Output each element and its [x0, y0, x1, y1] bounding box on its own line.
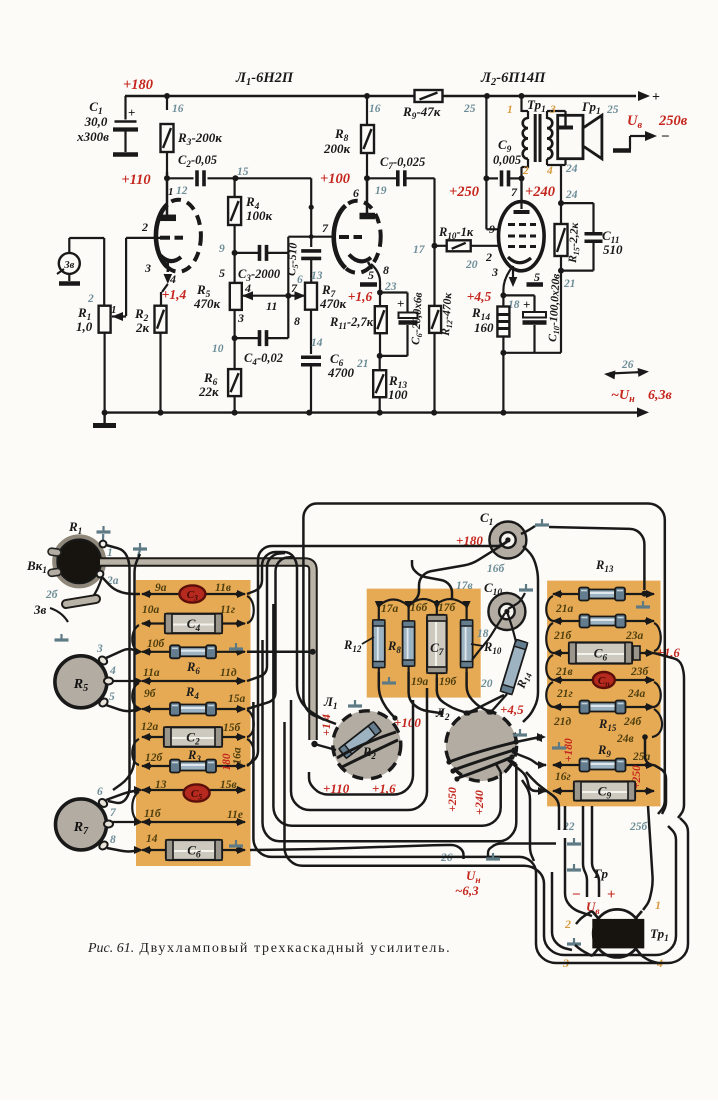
- wire 15а up right: [247, 557, 293, 709]
- svg-text:25: 25: [606, 104, 619, 116]
- wire row 9а-11в: [142, 593, 245, 595]
- panel right terminal strip: [547, 581, 660, 807]
- svg-text:11в: 11в: [215, 582, 231, 594]
- wire R7 lug8: [107, 848, 140, 851]
- wire row 11б-11е: [142, 821, 245, 823]
- capacitor C7: [367, 177, 397, 179]
- capacitor C9 body: [574, 782, 635, 801]
- capacitor C10 can: [488, 593, 525, 630]
- svg-text:4: 4: [169, 272, 176, 286]
- svg-text:4: 4: [109, 665, 116, 677]
- capacitor C2 body: [164, 727, 222, 747]
- wire C5 branch: [310, 178, 312, 247]
- svg-text:3: 3: [491, 265, 498, 279]
- potentiometer R7: [56, 799, 107, 850]
- svg-text:470к: 470к: [319, 296, 347, 311]
- corridor U5 to transformer: [253, 702, 688, 963]
- svg-text:+1,6: +1,6: [348, 289, 373, 304]
- resistor R8: [366, 96, 368, 124]
- wire 11д to braid: [247, 553, 285, 681]
- resistor R15 body: [589, 703, 617, 712]
- triode U1b Л1 second half: [334, 201, 381, 273]
- wire mid strip verticals: [378, 604, 380, 672]
- capacitor C7 body: [427, 615, 447, 673]
- svg-text:21: 21: [356, 358, 369, 370]
- svg-text:6,3в: 6,3в: [648, 388, 673, 403]
- capacitor C6 electrolytic body: [569, 643, 632, 664]
- corridor U3: [273, 604, 500, 826]
- ground on left strip bottom: [235, 840, 237, 846]
- resistor R9 body: [589, 761, 617, 770]
- wire row C6: [142, 849, 245, 851]
- left strip edge hooks: [247, 596, 254, 623]
- capacitor C6 body: [166, 840, 222, 860]
- wire knob terminal 2a loop: [102, 577, 140, 594]
- svg-text:100: 100: [388, 387, 408, 402]
- R7 lugs: [97, 797, 108, 808]
- svg-text:18: 18: [477, 628, 489, 640]
- wire row R3: [142, 765, 245, 767]
- wire grid2 feed vertical: [287, 237, 289, 338]
- resistor R3 body: [179, 762, 207, 771]
- wire Л2 to R9 row: [512, 752, 546, 765]
- svg-text:20: 20: [465, 259, 478, 271]
- wire Л2 heater vertical a: [522, 780, 534, 861]
- wire inner transformer loop left: [552, 872, 572, 950]
- cable stub 2б: [66, 599, 96, 604]
- socket Л2 rim dots: [446, 759, 451, 764]
- node 15: [232, 175, 238, 181]
- wire transformer pin3 ground: [575, 945, 592, 956]
- wire right strip bottom Гр pair: [583, 806, 587, 897]
- wire row C2: [142, 736, 245, 738]
- resistor R10 body: [461, 620, 473, 668]
- svg-text:+: +: [652, 90, 660, 105]
- wire row R13: [553, 593, 654, 595]
- svg-text:х300в: х300в: [76, 129, 109, 144]
- right strip left edge hooks 21: [546, 596, 553, 621]
- svg-text:510: 510: [603, 242, 623, 257]
- capacitor C3 paper: [179, 585, 205, 602]
- svg-text:2б: 2б: [45, 589, 59, 601]
- svg-text:+4,5: +4,5: [467, 289, 492, 304]
- capacitor C1 can: [489, 522, 526, 559]
- svg-text:24: 24: [565, 189, 578, 201]
- svg-text:15: 15: [237, 166, 249, 178]
- capacitor C10 electrolytic: [503, 294, 534, 296]
- tube socket Л1: [333, 711, 401, 779]
- wire row C6el: [553, 652, 654, 654]
- ground pin5 triode2: [360, 282, 377, 286]
- svg-text:2к: 2к: [135, 320, 150, 335]
- wire heater ground end: [488, 844, 556, 857]
- svg-text:9а: 9а: [155, 582, 167, 594]
- wire 11в-17в long top link: [247, 552, 324, 720]
- svg-text:19: 19: [375, 185, 387, 197]
- svg-text:3в: 3в: [63, 260, 74, 271]
- svg-text:24в: 24в: [616, 733, 634, 745]
- svg-text:14: 14: [146, 833, 158, 845]
- triode U1a Л1 first half: [156, 200, 201, 272]
- svg-text:+180: +180: [563, 738, 575, 762]
- svg-text:Л2 -6П14П: Л2 -6П14П: [480, 70, 546, 88]
- ground main: [102, 410, 108, 416]
- wire transformer pin2: [576, 911, 592, 924]
- wire C10 to 18: [472, 613, 505, 660]
- wire harness top run: [303, 504, 664, 815]
- ground near C10: [525, 584, 527, 590]
- svg-text:15в: 15в: [220, 779, 237, 791]
- ground near Л1: [354, 700, 356, 706]
- svg-text:19а: 19а: [411, 676, 429, 688]
- mid strip top hooks: [379, 600, 409, 607]
- ground on left strip row3: [235, 643, 237, 649]
- svg-text:3в: 3в: [33, 602, 47, 617]
- resistor R11: [375, 306, 387, 333]
- node R13 top: [377, 353, 383, 359]
- wire bottom common rail: [105, 411, 637, 413]
- svg-text:25: 25: [463, 103, 476, 115]
- wire Л2 heater vertical b: [526, 772, 559, 830]
- svg-text:21: 21: [563, 278, 576, 290]
- potentiometer R1: [103, 238, 105, 306]
- knob terminal ground stems: [102, 534, 104, 541]
- svg-text:11д: 11д: [220, 667, 237, 679]
- svg-text:19б: 19б: [439, 676, 458, 688]
- svg-text:470к: 470к: [193, 296, 221, 311]
- svg-text:+250: +250: [449, 184, 479, 200]
- svg-text:2: 2: [485, 250, 492, 264]
- svg-text:+100: +100: [320, 171, 350, 187]
- panel middle terminal strip: [367, 589, 481, 698]
- svg-text:11а: 11а: [143, 667, 160, 679]
- svg-text:24: 24: [565, 163, 578, 175]
- svg-text:16а: 16а: [232, 747, 244, 765]
- wire C7 to R12 vertical: [433, 178, 435, 305]
- capacitor C2: [167, 177, 194, 179]
- capacitor C6 4700: [301, 355, 321, 359]
- svg-text:30,0: 30,0: [84, 114, 108, 129]
- wire row 13-15в: [142, 789, 245, 791]
- svg-text:16б: 16б: [487, 563, 506, 575]
- svg-text:9: 9: [489, 222, 495, 236]
- wire transformer pin4 to loop: [642, 956, 658, 963]
- ground pin5 pentode: [527, 282, 544, 286]
- resistor R14 body diagonal: [500, 639, 527, 694]
- svg-text:+250: +250: [445, 787, 459, 812]
- svg-text:3: 3: [96, 643, 103, 655]
- svg-text:1: 1: [168, 186, 174, 198]
- svg-text:+: +: [523, 297, 530, 312]
- ground above Гр: [573, 864, 575, 870]
- wire 23а hooks right edge: [654, 623, 661, 651]
- resistor R10: [435, 245, 449, 247]
- resistor R2: [162, 284, 168, 292]
- svg-text:~6,3: ~6,3: [455, 883, 479, 898]
- svg-text:3: 3: [237, 311, 244, 325]
- panel left terminal strip: [136, 580, 251, 866]
- svg-text:+240: +240: [472, 790, 486, 815]
- svg-text:21д: 21д: [553, 716, 572, 728]
- wire Л2 to right strip +180 arrows: [516, 737, 540, 742]
- wire R5 lug3: [106, 649, 140, 658]
- wire cathode2 junction 23: [371, 264, 380, 293]
- socket Л1 wires: [337, 732, 396, 758]
- svg-text:1: 1: [107, 547, 113, 559]
- svg-text:8: 8: [110, 834, 116, 846]
- svg-text:13: 13: [155, 779, 167, 791]
- ground tr left: [573, 938, 575, 944]
- svg-text:26: 26: [621, 359, 634, 371]
- corridor U4: [263, 640, 517, 841]
- svg-text:250в: 250в: [658, 113, 688, 129]
- svg-text:100к: 100к: [246, 208, 273, 223]
- resistor R14: [497, 307, 509, 337]
- wire mid strip bottom exits: [379, 672, 394, 717]
- svg-text:1: 1: [655, 898, 661, 912]
- svg-text:11е: 11е: [227, 809, 243, 821]
- svg-text:+240: +240: [525, 184, 555, 200]
- resistor R9 on rail: [415, 90, 443, 102]
- transformer Tr1 layout: [593, 909, 641, 957]
- svg-text:+: +: [397, 296, 404, 311]
- svg-text:1,0: 1,0: [76, 319, 93, 334]
- svg-text:10: 10: [212, 343, 224, 355]
- svg-text:+110: +110: [121, 172, 150, 188]
- svg-text:4700: 4700: [327, 365, 355, 380]
- wire grid2 row: [288, 236, 334, 238]
- svg-text:1: 1: [111, 304, 117, 316]
- potentiometer R1 knob: [54, 536, 104, 586]
- wire knob ground loop: [113, 554, 140, 790]
- svg-text:11г: 11г: [220, 604, 235, 616]
- svg-text:6: 6: [353, 186, 359, 200]
- ground mid strip: [388, 677, 390, 683]
- wire cable end to socket Л1: [311, 741, 317, 747]
- svg-text:24а: 24а: [627, 688, 646, 700]
- resistor R13 body: [588, 590, 616, 599]
- svg-text:7: 7: [322, 221, 329, 235]
- potentiometer R5: [55, 656, 107, 708]
- svg-text:0,005: 0,005: [493, 153, 521, 167]
- svg-text:2: 2: [564, 917, 571, 931]
- svg-text:17б: 17б: [438, 602, 457, 614]
- svg-text:2: 2: [141, 220, 148, 234]
- wire R5 lug4: [112, 680, 140, 682]
- wire C1 to 16б to mid strip: [412, 542, 507, 603]
- svg-text:R10 -1к: R10 -1к: [438, 225, 474, 241]
- svg-text:9б: 9б: [144, 688, 157, 700]
- svg-text:10б: 10б: [147, 638, 166, 650]
- svg-text:+100: +100: [394, 715, 421, 730]
- corridor U6 to transformer outer: [285, 722, 677, 955]
- socket Л2 wires: [449, 742, 516, 762]
- svg-text:8: 8: [294, 314, 300, 328]
- output minus arrow: [630, 135, 645, 137]
- svg-text:11: 11: [266, 299, 277, 313]
- svg-text:−: −: [661, 129, 670, 145]
- svg-text:15а: 15а: [228, 693, 246, 705]
- wire to anode load row: [235, 177, 311, 179]
- capacitor C6 electrolytic 20,0x6в: [380, 291, 408, 293]
- svg-text:1: 1: [507, 104, 513, 116]
- speaker ground: [564, 115, 566, 126]
- tube socket Л2: [446, 710, 517, 781]
- ground right strip mid: [558, 742, 560, 748]
- capacitor C4 body: [165, 614, 222, 634]
- svg-text:12: 12: [176, 185, 188, 197]
- svg-text:17в: 17в: [456, 580, 473, 592]
- wire R5 lug5: [106, 705, 140, 711]
- resistor R4 body: [179, 705, 207, 714]
- svg-text:С7 -0,025: С7 -0,025: [380, 155, 425, 171]
- svg-text:3: 3: [549, 104, 556, 116]
- resistor R12 body: [373, 620, 385, 668]
- resistor R2 body in socket: [339, 722, 381, 759]
- svg-text:5: 5: [219, 266, 225, 280]
- wire C10 tab to ground: [508, 593, 525, 609]
- svg-text:+: +: [607, 887, 616, 903]
- svg-text:25б: 25б: [629, 821, 649, 833]
- svg-text:160: 160: [474, 320, 494, 335]
- wire 21 vertical: [560, 271, 562, 353]
- wire row R15: [553, 706, 654, 708]
- capacitor C5: [301, 249, 321, 253]
- resistor R13: [373, 370, 386, 397]
- wire R14 to socket pins: [491, 694, 507, 712]
- ground near knob 2: [139, 543, 141, 549]
- R5 lugs: [97, 655, 108, 666]
- wire knob terminal 1 loop: [106, 545, 130, 803]
- resistor R15: [555, 224, 568, 256]
- wire C1 down to right strip: [523, 546, 538, 722]
- ground right of Л2: [519, 729, 521, 735]
- wire R7 lug7: [112, 821, 140, 823]
- svg-text:16: 16: [172, 103, 184, 115]
- svg-text:С4 -0,02: С4 -0,02: [244, 351, 283, 367]
- svg-text:11б: 11б: [144, 808, 162, 820]
- svg-text:8: 8: [383, 263, 389, 277]
- svg-text:16: 16: [369, 103, 381, 115]
- wire Л2 to C9 row: [508, 760, 546, 791]
- svg-text:23б: 23б: [630, 666, 650, 678]
- wire socket Л2 bottom pins: [496, 764, 501, 772]
- potentiometer R7: [305, 283, 317, 310]
- resistor R6: [234, 338, 236, 369]
- svg-text:−: −: [572, 887, 581, 903]
- svg-text:3: 3: [144, 261, 151, 275]
- wire row R9: [553, 764, 654, 766]
- resistor R8 body: [403, 621, 415, 666]
- resistor R11 body: [589, 617, 617, 626]
- wire row C4: [142, 622, 245, 624]
- node 9 / capacitor C3: [232, 250, 238, 256]
- resistor R6 body: [179, 647, 207, 656]
- cable shielded main: [100, 562, 313, 740]
- wire 22 down: [564, 806, 567, 830]
- svg-text:22к: 22к: [198, 384, 219, 399]
- svg-text:15б: 15б: [223, 722, 242, 734]
- transformer Tr1: [523, 118, 528, 128]
- svg-text:10а: 10а: [142, 604, 160, 616]
- wire 25б down to transformer pin1: [643, 806, 653, 910]
- wire row 11а-11д: [142, 680, 245, 682]
- resistor R3: [166, 96, 168, 110]
- wire row C9: [553, 790, 654, 792]
- resistor R12: [429, 306, 441, 333]
- wire row R6: [142, 651, 245, 653]
- capacitor Сп body: [593, 672, 615, 688]
- svg-text:17а: 17а: [381, 603, 399, 615]
- wire 26 heater end curl: [250, 845, 464, 859]
- wire +250 vertical: [485, 96, 487, 229]
- svg-text:21в: 21в: [555, 666, 573, 678]
- svg-text:6: 6: [297, 274, 303, 286]
- svg-text:24б: 24б: [623, 716, 643, 728]
- wire 10б ground link: [247, 651, 310, 654]
- svg-text:14: 14: [311, 337, 323, 349]
- svg-text:21г: 21г: [556, 688, 573, 700]
- wire grid1 to R1 wiper: [126, 237, 164, 239]
- wire top +250 supply rail: [125, 95, 636, 97]
- transformer wires: [520, 96, 522, 112]
- wire row R4: [142, 708, 245, 710]
- svg-text:5: 5: [368, 268, 374, 282]
- svg-text:23: 23: [384, 281, 397, 293]
- svg-text:21а: 21а: [555, 603, 574, 615]
- wire +1,6 exit right strip: [654, 653, 684, 818]
- capacitor C5 paper: [184, 784, 210, 801]
- wiper wire node 11: [242, 291, 253, 300]
- pentode Л2: [499, 202, 545, 271]
- svg-text:5: 5: [109, 691, 115, 703]
- svg-text:Л1 -6Н2П: Л1 -6Н2П: [235, 70, 294, 88]
- wire cathode junction +4,5: [503, 266, 513, 306]
- corridor U2: [291, 688, 427, 810]
- capacitor C1: [124, 96, 126, 120]
- ground below 3в: [60, 634, 62, 640]
- svg-text:7: 7: [511, 185, 518, 199]
- node +100: [364, 175, 370, 181]
- svg-text:23а: 23а: [625, 630, 644, 642]
- resistor R4: [234, 178, 236, 197]
- ground right strip top: [642, 601, 644, 607]
- ground bottom 22: [573, 838, 575, 844]
- svg-text:16г: 16г: [555, 771, 571, 783]
- wire R7 lug6: [106, 790, 140, 800]
- svg-text:21б: 21б: [553, 630, 573, 642]
- svg-text:4: 4: [244, 281, 251, 295]
- wire row Сп: [553, 679, 654, 681]
- svg-text:13: 13: [311, 270, 323, 282]
- svg-text:+: +: [128, 105, 135, 120]
- wire 3в lead: [50, 608, 68, 622]
- svg-text:4: 4: [546, 165, 553, 177]
- svg-text:Рис. 61. Двухламповый трехкаск: Рис. 61. Двухламповый трехкаскадный усил…: [87, 941, 451, 956]
- svg-text:R11 -2,7к: R11 -2,7к: [329, 315, 374, 331]
- microphone input 3в: [59, 253, 80, 274]
- svg-text:+180: +180: [123, 77, 153, 93]
- svg-text:200к: 200к: [323, 141, 351, 156]
- svg-text:16б: 16б: [410, 602, 429, 614]
- ground near knob 1: [102, 526, 104, 532]
- svg-text:6: 6: [97, 786, 103, 798]
- wire C1 tab to ground: [521, 526, 535, 534]
- wire C10 to R14: [508, 613, 517, 642]
- svg-text:+1,4: +1,4: [162, 287, 187, 302]
- speaker Гр1: [558, 115, 583, 158]
- svg-text:5: 5: [534, 270, 540, 284]
